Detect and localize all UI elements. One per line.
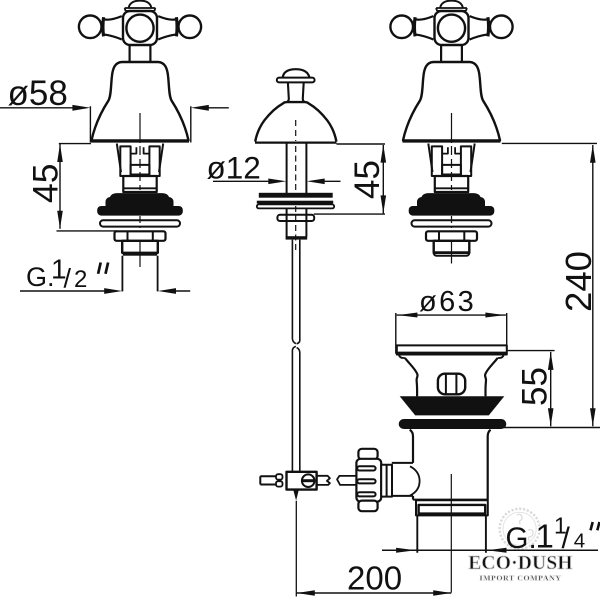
drain neck left [405, 358, 418, 397]
tail pipe [417, 515, 486, 552]
right valve centerline [451, 113, 453, 143]
knurl ridges [357, 466, 375, 470]
dim Ø63 extensions [396, 313, 507, 354]
lift rod upper segment [292, 240, 299, 344]
dim G.1/2 line [20, 290, 106, 292]
svg-text:45: 45 [26, 163, 66, 203]
connector sleeve [381, 465, 392, 497]
dim Ø58 extension lines [90, 106, 190, 142]
lift rod lower segment [292, 346, 299, 472]
dim 55 line [550, 352, 552, 426]
svg-text:ø63: ø63 [419, 286, 476, 318]
pop-up bell [255, 102, 336, 142]
tube black band lower [257, 201, 333, 204]
svg-text:4: 4 [574, 529, 585, 552]
dim Ø58 right arrowhead [191, 105, 209, 111]
left valve threaded pipe [122, 256, 157, 292]
dim line Ø58 left shaft [0, 107, 76, 109]
clamp block [287, 472, 317, 490]
knob dome [283, 69, 310, 78]
horizontal rod right with break [317, 476, 330, 485]
tube lower section [287, 208, 307, 236]
dim 200 left extension [295, 501, 297, 597]
dim 240/55 bottom extension [504, 427, 600, 429]
tail thread collar [416, 500, 488, 515]
watermark gear emblem [500, 509, 540, 549]
svg-text:2: 2 [74, 266, 87, 293]
svg-text:200: 200 [347, 560, 402, 597]
knurled nut top tab [358, 449, 377, 460]
svg-text:ECO·DUSH: ECO·DUSH [468, 553, 573, 574]
right valve collar bottom cap [434, 251, 469, 253]
knurled nut body [356, 459, 381, 502]
overflow barrel [438, 374, 465, 395]
knurled nut bottom tab [358, 501, 377, 512]
body left lower stub [412, 496, 414, 500]
pop-up bell bottom edge [255, 142, 337, 144]
plate lips [399, 355, 504, 358]
guide tube [287, 143, 307, 193]
left valve thread shoulder [123, 252, 157, 255]
dim Ø63 line [397, 314, 506, 316]
dim 240 line [592, 145, 594, 426]
dim G.1-1/4 line [382, 549, 598, 551]
svg-text:45: 45 [348, 160, 387, 199]
black cone gasket [400, 396, 505, 415]
tube washer [257, 204, 334, 208]
boss bottom line [392, 495, 413, 497]
dim 55 top extension [508, 350, 555, 352]
dim 45 left extensions [57, 144, 118, 231]
dim 45 right line [382, 145, 384, 213]
plug top plate [397, 345, 507, 354]
tube black band upper [259, 193, 333, 198]
clamp screw [302, 474, 315, 487]
dim Ø58 left arrowhead [72, 105, 90, 111]
knob flange [277, 78, 315, 83]
black seal ring [399, 419, 507, 429]
horizontal rod left [260, 476, 276, 484]
tube nut [277, 215, 314, 221]
svg-text:240: 240 [558, 251, 599, 312]
svg-text:ø12: ø12 [207, 149, 261, 185]
boss fillet arc [410, 466, 420, 495]
dim 45 left line [59, 144, 61, 229]
svg-text:1: 1 [536, 518, 554, 555]
dim 45 right extensions [314, 144, 385, 214]
dim Ø12 line [213, 180, 270, 182]
tube bottom black band [286, 236, 308, 239]
svg-text:IMPORT COMPANY: IMPORT COMPANY [479, 573, 561, 582]
drain body left side [410, 430, 413, 463]
dim Ø58 right shaft [205, 107, 229, 109]
knob neck [287, 82, 304, 102]
dim 45 left arrowheads [57, 144, 63, 229]
drain centerline [450, 474, 452, 593]
body bottom line [413, 499, 488, 501]
svg-text:ø58: ø58 [8, 74, 68, 113]
svg-text:G.: G. [506, 522, 537, 555]
dim 200 line [297, 592, 452, 594]
pop-up centerline [295, 120, 297, 141]
boss top line [392, 462, 413, 464]
svg-text:/: / [562, 522, 571, 555]
svg-text:55: 55 [516, 367, 555, 406]
screw slot [302, 479, 315, 482]
clamp lower pin [293, 490, 299, 501]
left valve centerline [139, 113, 141, 143]
rod clip [276, 474, 283, 479]
svg-text:/: / [64, 264, 72, 294]
dim 240 top extension [502, 142, 597, 144]
drain body right side [488, 430, 491, 500]
drain neck right [485, 358, 498, 397]
